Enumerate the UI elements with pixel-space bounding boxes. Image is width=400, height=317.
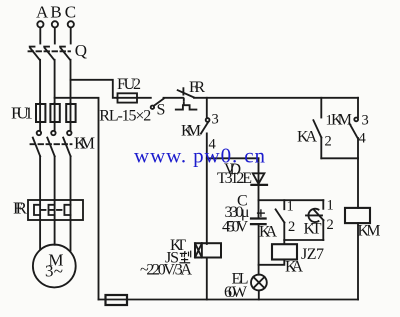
svg-text:A: A [36,3,49,22]
lamp EL 60W [251,275,267,291]
svg-text:FU1: FU1 [11,104,33,123]
svg-text:KM: KM [74,134,95,153]
motor M 3-phase [33,245,76,288]
wire bottom rail of KA/KT pair [284,239,323,241]
switch Q pole B [44,47,54,60]
bottom bus wire [99,299,359,301]
wire FR A to motor [39,220,41,250]
wire capacitor to lamp [258,224,260,275]
contactor KM main contact C [63,131,71,157]
wire middle column down to KT coil [206,133,208,244]
wire FR C to motor [70,220,72,251]
wire junction middle column to diode branch [207,157,259,159]
diode VD T312E [251,173,267,185]
wire phase B switch to fuse [54,60,56,103]
fuse FU1 pole A [36,103,45,122]
relay KA aux contact (top right) [313,98,321,159]
fuse on bottom bus [106,295,128,305]
contactor KM main contact B [47,131,55,157]
svg-text:B: B [50,3,61,22]
svg-text:KM: KM [358,223,381,240]
svg-text:FU2: FU2 [117,76,141,93]
svg-text:1: 1 [287,199,294,215]
svg-text:2: 2 [288,219,295,235]
capacitor C 330u plates [251,219,266,225]
switch Q linkage dashed [29,50,71,52]
svg-text:2: 2 [325,134,332,150]
svg-text:FR: FR [189,79,205,96]
contactor KM coil [345,208,370,223]
svg-text:T312E: T312E [217,170,252,187]
node A terminal [37,21,43,27]
switch Q pole C [60,47,70,60]
capacitor polarity plus sign [258,210,265,216]
wire contactor A to FR [39,156,41,200]
svg-text:S: S [157,102,166,119]
labels [11,3,95,281]
fuse FU2 [117,93,151,102]
svg-text:60W: 60W [224,284,248,301]
switch S hinge [151,106,154,109]
diode VD anode wire [258,158,260,218]
wire rejoin rail below KA/KM aux [321,157,358,159]
svg-text:~220V/3A: ~220V/3A [140,262,192,279]
svg-text:www. pw0. cn: www. pw0. cn [134,143,266,167]
wire down to KM coil [357,158,359,208]
relay KA contact (capacitor branch) [276,200,285,240]
glyph JS-xing (Chinese) hand drawn [179,251,190,263]
wire contactor C to FR [70,156,72,200]
wire fuse A to contactor [39,122,41,130]
contactor KM main contact A [33,131,41,157]
svg-text:3~: 3~ [45,261,63,280]
wire phase C drop to switch [70,28,72,44]
svg-text:FR: FR [13,199,28,218]
wire fuse B to contactor [54,122,56,130]
wire S to FR contact [164,97,184,99]
svg-text:JZ7: JZ7 [301,246,324,263]
wire phase A switch to fuse [39,60,41,103]
fuse FU1 pole B [50,103,59,122]
switch Q pole A [30,47,40,60]
wire fuse C to contactor [70,122,72,130]
svg-text:KT: KT [304,221,322,238]
svg-text:KA: KA [259,224,277,241]
wire phase B drop to switch [54,28,56,44]
wire phase A drop to switch [39,28,41,44]
contactor KM aux contact 3-4 (right) [349,98,358,159]
svg-text:C: C [65,3,76,22]
thermal relay FR NC contact [176,88,197,109]
wire KT coil to bottom bus [206,258,208,300]
svg-text:RL-15×2: RL-15×2 [99,107,151,124]
switch S blade [154,99,164,106]
wire KM coil to bottom bus [357,223,359,299]
svg-text:1: 1 [327,198,334,214]
fuse FU1 pole C [66,103,75,122]
relay JZ7 coil (KA) [272,240,297,260]
svg-text:KA: KA [285,259,303,276]
wire control tap from phase B (left rail) [55,98,99,300]
FR heater element B [49,200,55,220]
svg-text:Q: Q [75,41,87,60]
time relay KT coil [195,243,221,257]
thermal relay FR heater box [28,200,83,220]
svg-text:KM: KM [181,123,201,140]
wire FR B to motor [54,220,56,245]
time relay KT delayed contact [306,200,323,240]
wire JZ7 coil return to lamp column [259,260,285,265]
wire top rail of KA/KT pair [259,199,324,201]
svg-text:3: 3 [212,112,219,128]
wire lamp to bottom bus [258,290,260,299]
FR heater element C [64,200,70,220]
svg-text:2: 2 [327,217,334,233]
wire FR contact to top rail junction [194,97,358,99]
node C terminal [68,21,74,27]
svg-text:KA: KA [297,129,317,146]
wire phase C switch to fuse [70,60,72,103]
contactor KM linkage dashed [31,143,72,145]
svg-text:450V: 450V [222,219,248,236]
svg-text:KM: KM [331,112,352,129]
FR heater linkage dashed [41,209,64,211]
svg-text:3: 3 [362,113,369,129]
svg-text:4: 4 [359,131,367,147]
FR heater element A [34,200,40,220]
wire contactor B to FR [54,156,56,200]
node B terminal [52,21,58,27]
contactor KM aux contact 3-4 (middle) [201,98,210,134]
wire control tap from phase C [71,80,118,98]
